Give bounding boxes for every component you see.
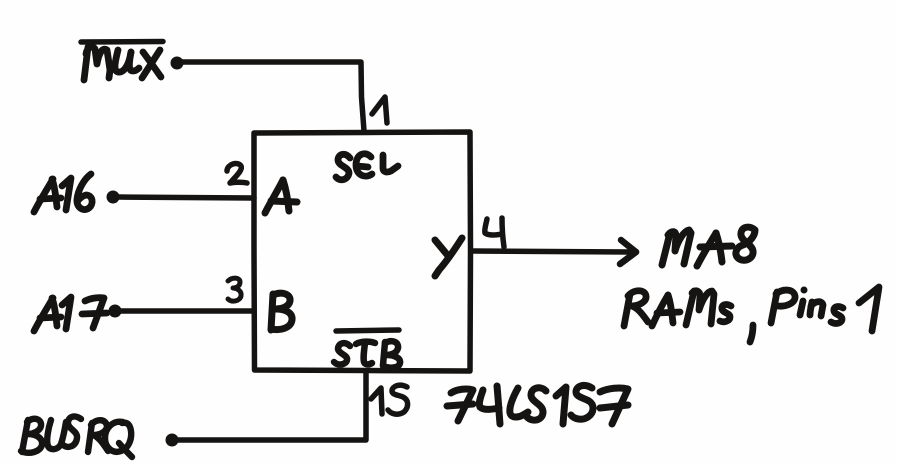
pin name STB text xyxy=(334,341,400,368)
pin number 1 xyxy=(372,97,387,123)
wire Y output xyxy=(471,251,630,252)
junction dot at A16 xyxy=(107,191,120,204)
pin name SEL xyxy=(336,154,398,180)
pin name B xyxy=(271,293,292,330)
junction dot at BUSRQ xyxy=(166,434,179,447)
part number 74LS157 xyxy=(447,385,628,424)
IC U1 74LS157 body outline xyxy=(254,132,471,371)
pin name A xyxy=(265,180,297,213)
net label BUSRQ xyxy=(21,416,132,457)
wire A17 to pin 3 xyxy=(120,308,254,314)
net label MUX (overline) xyxy=(81,39,163,45)
net label A16 xyxy=(34,174,92,212)
net label MA8 xyxy=(662,227,755,266)
wire A16 to pin 2 xyxy=(118,197,254,198)
junction dot at A17 xyxy=(109,305,122,318)
pin number 15 xyxy=(371,385,408,414)
pin number 4 xyxy=(485,218,504,247)
net label A17 xyxy=(34,297,107,331)
junction dot at MUX xyxy=(171,57,184,70)
arrowhead to MA8 xyxy=(620,240,636,264)
net label MUX text xyxy=(84,47,161,80)
pin name Y xyxy=(435,238,462,276)
pin number 2 xyxy=(227,164,247,183)
annotation RAMs, Pins 1 xyxy=(624,287,879,343)
pin number 3 xyxy=(228,278,241,301)
wire MUX to pin 1 xyxy=(182,62,364,131)
wire pin 15 to BUSRQ xyxy=(172,371,366,440)
pin name STB overline xyxy=(336,330,399,331)
